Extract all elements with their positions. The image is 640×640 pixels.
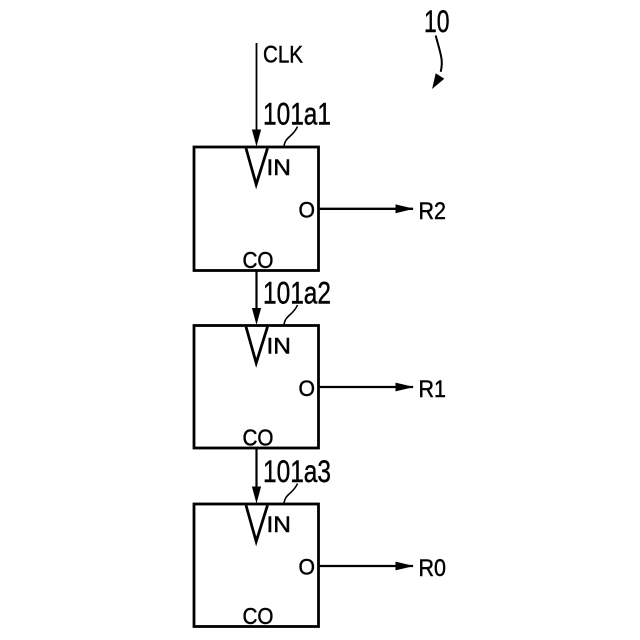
svg-text:CLK: CLK bbox=[263, 42, 303, 69]
svg-text:IN: IN bbox=[267, 334, 292, 359]
svg-text:IN: IN bbox=[267, 512, 292, 537]
svg-text:101a2: 101a2 bbox=[263, 275, 331, 311]
svg-text:R0: R0 bbox=[419, 555, 447, 582]
svg-text:CO: CO bbox=[243, 425, 274, 451]
svg-text:O: O bbox=[299, 376, 316, 401]
svg-text:101a3: 101a3 bbox=[263, 453, 331, 489]
svg-text:IN: IN bbox=[267, 155, 292, 180]
svg-text:R2: R2 bbox=[419, 198, 447, 225]
svg-text:101a1: 101a1 bbox=[263, 96, 331, 132]
svg-text:R1: R1 bbox=[419, 376, 447, 403]
svg-text:O: O bbox=[299, 555, 316, 580]
svg-text:10: 10 bbox=[424, 3, 450, 39]
svg-text:CO: CO bbox=[243, 603, 274, 629]
svg-text:O: O bbox=[299, 198, 316, 223]
svg-text:CO: CO bbox=[243, 247, 274, 273]
